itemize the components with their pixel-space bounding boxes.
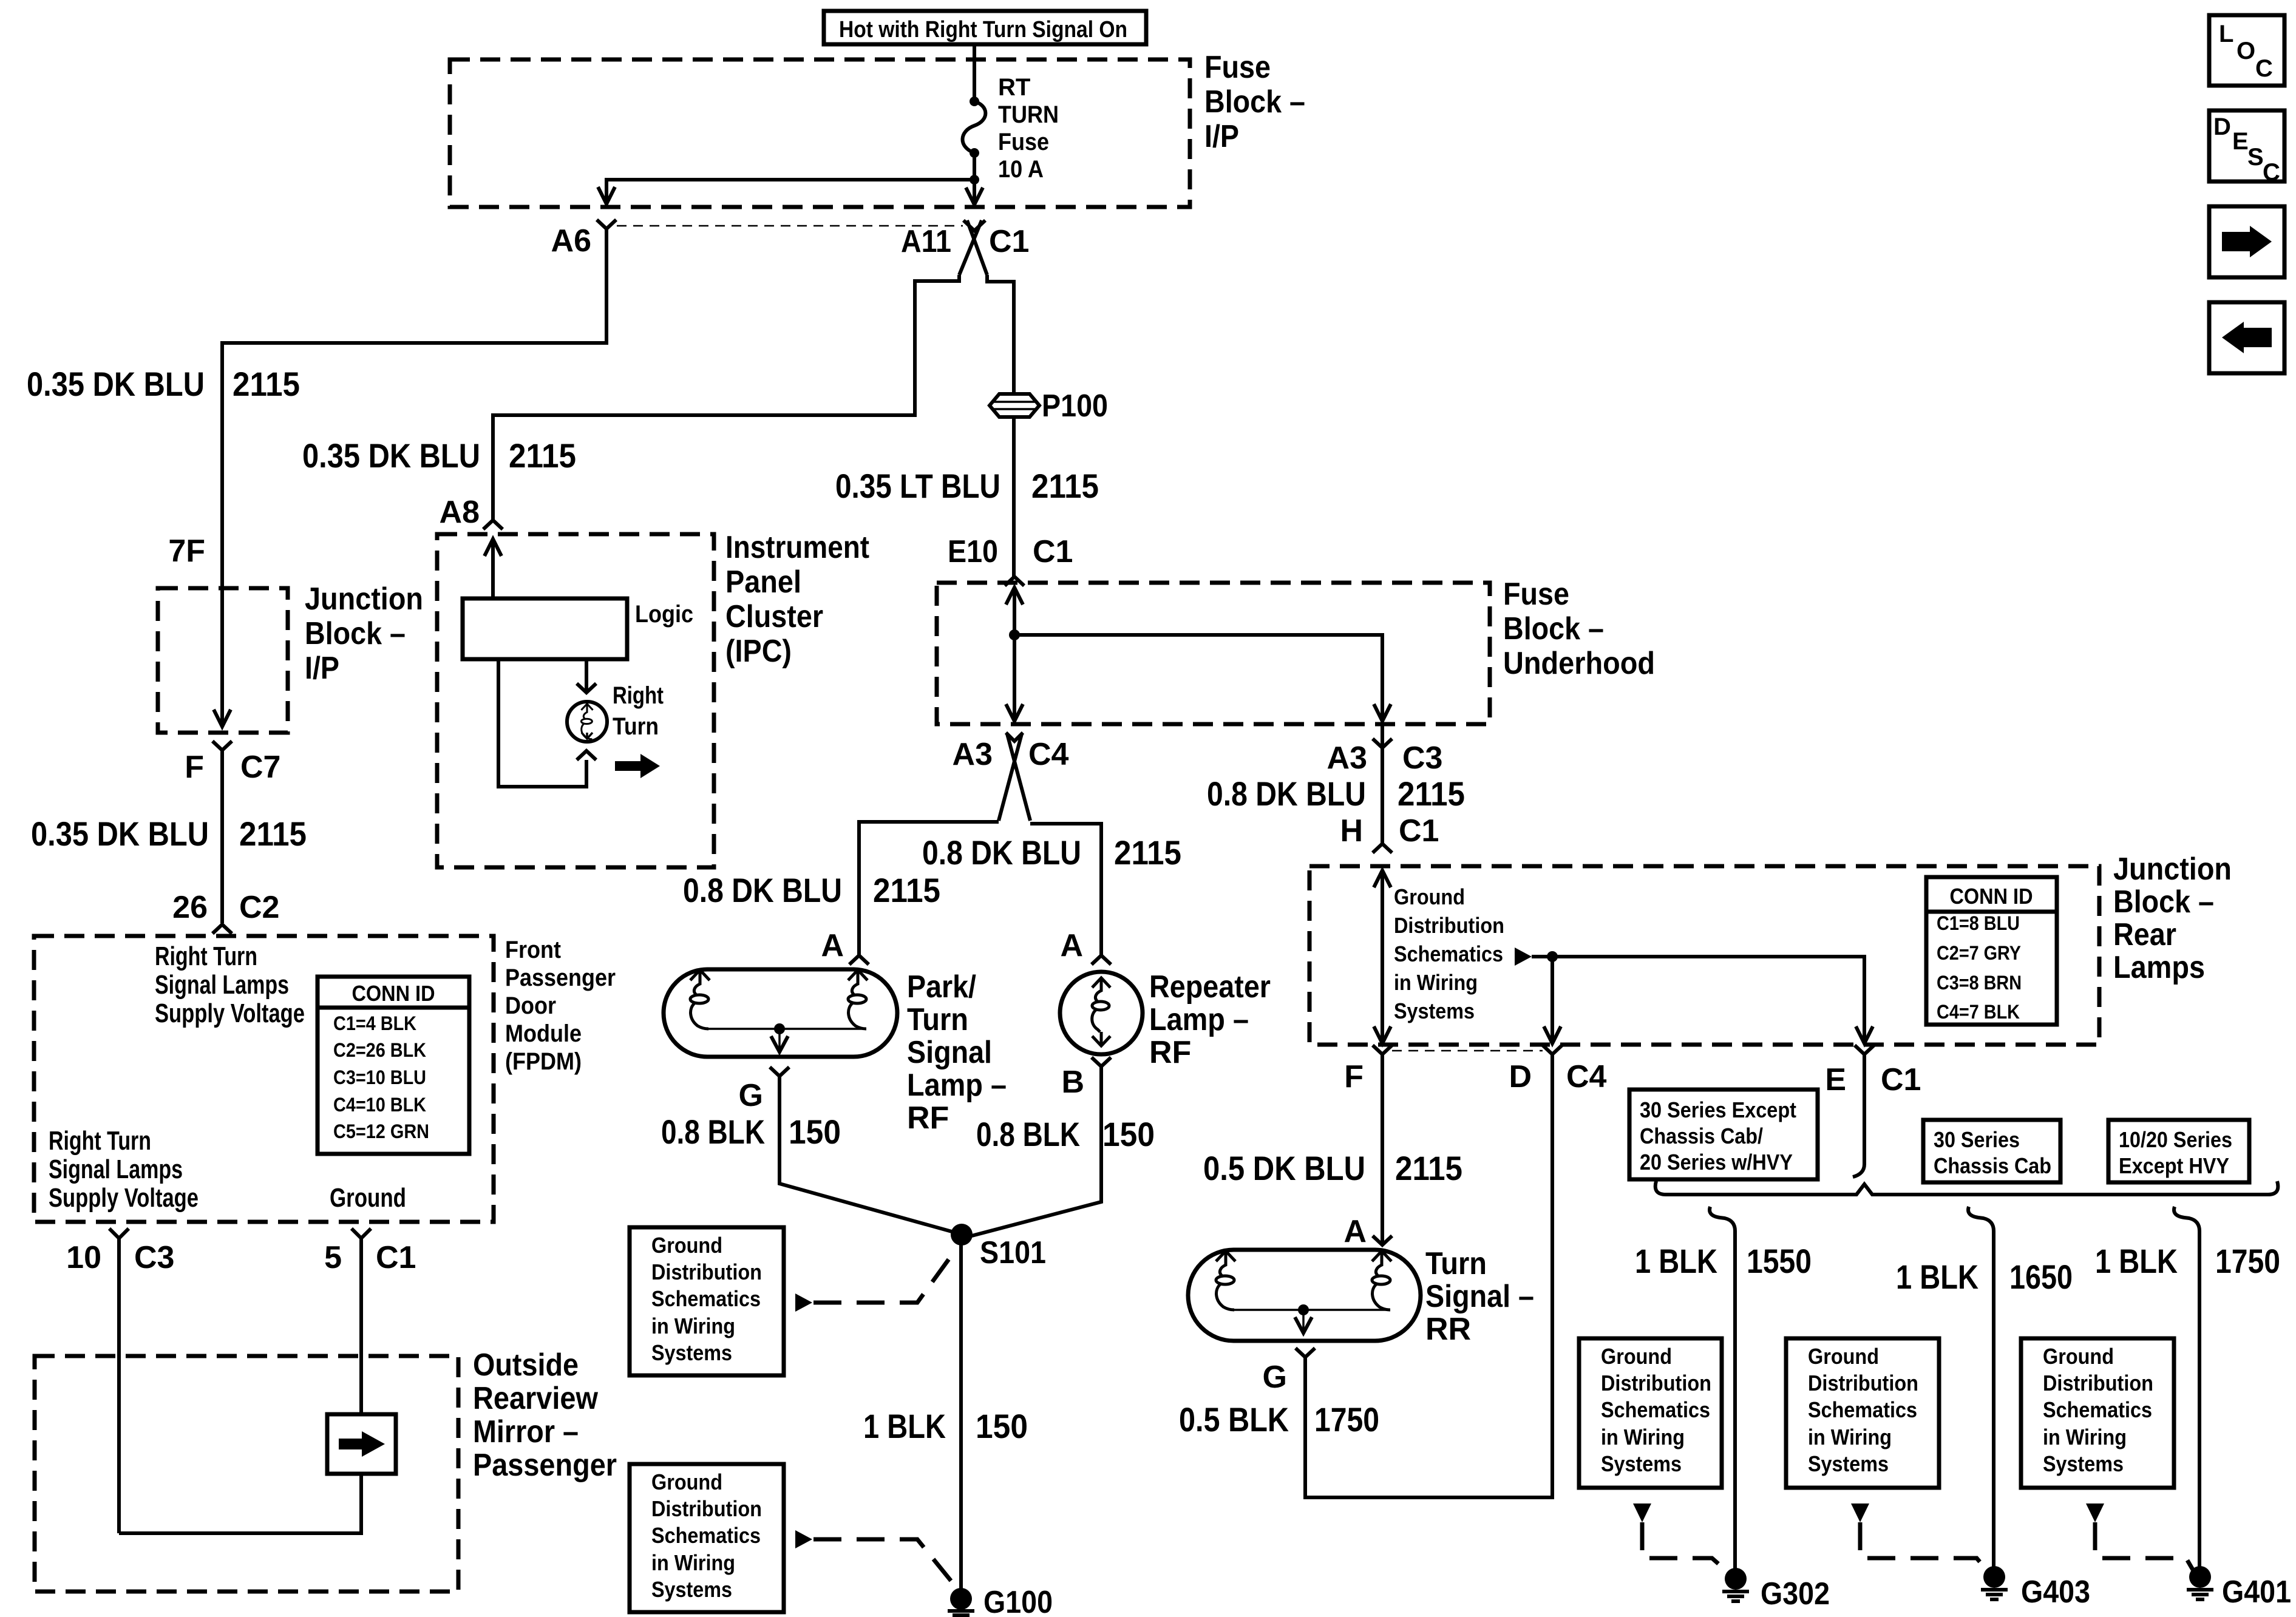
svg-text:G100: G100 — [983, 1585, 1053, 1617]
svg-text:C4=10 BLK: C4=10 BLK — [333, 1094, 426, 1116]
svg-text:1750: 1750 — [2215, 1242, 2280, 1280]
svg-text:C: C — [2255, 55, 2273, 82]
svg-text:Signal Lamps: Signal Lamps — [155, 970, 289, 1000]
svg-text:26: 26 — [172, 890, 208, 925]
svg-text:Junction: Junction — [305, 581, 423, 617]
svg-text:Outside: Outside — [473, 1347, 579, 1383]
svg-text:Ground: Ground — [651, 1470, 722, 1494]
svg-text:(FPDM): (FPDM) — [505, 1048, 582, 1075]
svg-text:C2: C2 — [239, 890, 279, 925]
svg-text:Front: Front — [505, 937, 561, 963]
svg-text:2115: 2115 — [509, 436, 576, 475]
svg-text:Systems: Systems — [1394, 998, 1475, 1023]
svg-text:Passenger: Passenger — [473, 1448, 617, 1483]
svg-text:F: F — [185, 750, 204, 785]
svg-text:Turn: Turn — [1425, 1246, 1487, 1281]
svg-text:Block –: Block – — [1503, 611, 1604, 646]
svg-text:0.8 BLK: 0.8 BLK — [661, 1113, 765, 1151]
svg-text:Systems: Systems — [1808, 1451, 1889, 1476]
svg-text:0.8 BLK: 0.8 BLK — [976, 1115, 1080, 1153]
svg-text:G403: G403 — [2021, 1575, 2090, 1610]
svg-text:Systems: Systems — [651, 1577, 732, 1602]
svg-text:C7: C7 — [240, 750, 280, 785]
svg-text:C1: C1 — [1033, 534, 1073, 569]
svg-text:O: O — [2237, 38, 2255, 64]
svg-text:G: G — [739, 1078, 763, 1113]
svg-text:E: E — [2232, 128, 2249, 155]
svg-text:Panel: Panel — [725, 564, 801, 600]
svg-text:Schematics: Schematics — [1601, 1397, 1710, 1422]
svg-text:Right Turn: Right Turn — [155, 941, 257, 971]
svg-text:2115: 2115 — [873, 871, 940, 909]
svg-text:0.35 LT BLU: 0.35 LT BLU — [835, 467, 1000, 505]
svg-text:Ground: Ground — [1808, 1344, 1879, 1369]
svg-text:A3: A3 — [1327, 741, 1367, 776]
svg-text:D: D — [1509, 1059, 1532, 1094]
svg-text:Passenger: Passenger — [505, 964, 616, 991]
svg-text:G: G — [1263, 1360, 1287, 1395]
svg-text:0.35 DK BLU: 0.35 DK BLU — [302, 436, 480, 475]
svg-text:Signal Lamps: Signal Lamps — [49, 1154, 183, 1184]
svg-text:Lamp –: Lamp – — [1149, 1002, 1249, 1037]
svg-text:I/P: I/P — [1204, 119, 1239, 154]
svg-text:C: C — [2263, 159, 2280, 186]
svg-text:1650: 1650 — [2009, 1258, 2073, 1296]
svg-text:(IPC): (IPC) — [725, 634, 792, 669]
svg-text:Block –: Block – — [2113, 884, 2214, 920]
svg-text:0.5 DK BLU: 0.5 DK BLU — [1203, 1149, 1365, 1187]
svg-text:Distribution: Distribution — [651, 1496, 762, 1521]
svg-text:Schematics: Schematics — [651, 1286, 761, 1311]
svg-text:A3: A3 — [953, 737, 993, 772]
svg-text:CONN ID: CONN ID — [1950, 884, 2033, 909]
svg-text:Supply Voltage: Supply Voltage — [49, 1183, 199, 1213]
svg-text:2115: 2115 — [239, 815, 307, 853]
svg-text:A: A — [1343, 1214, 1367, 1249]
svg-text:G302: G302 — [1761, 1576, 1830, 1612]
svg-text:1 BLK: 1 BLK — [2095, 1242, 2178, 1280]
svg-text:Chassis Cab: Chassis Cab — [1934, 1153, 2051, 1178]
svg-text:D: D — [2213, 114, 2231, 140]
svg-text:1 BLK: 1 BLK — [1635, 1242, 1717, 1280]
svg-text:Instrument: Instrument — [725, 530, 869, 565]
svg-text:C3=10 BLU: C3=10 BLU — [333, 1066, 426, 1088]
svg-text:Systems: Systems — [2043, 1451, 2124, 1476]
svg-text:S101: S101 — [980, 1235, 1046, 1270]
svg-text:Turn: Turn — [907, 1002, 968, 1037]
svg-text:Underhood: Underhood — [1503, 646, 1655, 681]
svg-text:Distribution: Distribution — [651, 1259, 762, 1284]
svg-text:L: L — [2219, 21, 2233, 47]
svg-text:Fuse: Fuse — [1204, 50, 1271, 85]
svg-text:Distribution: Distribution — [1394, 913, 1504, 938]
svg-text:C1: C1 — [1881, 1062, 1921, 1097]
svg-text:Right Turn: Right Turn — [49, 1126, 151, 1156]
svg-text:Right: Right — [613, 682, 664, 709]
svg-text:Distribution: Distribution — [1601, 1371, 1711, 1395]
svg-text:Turn: Turn — [613, 713, 659, 740]
svg-text:5: 5 — [324, 1240, 342, 1275]
svg-text:C1: C1 — [1399, 813, 1439, 849]
svg-text:in Wiring: in Wiring — [1601, 1425, 1685, 1449]
svg-text:in Wiring: in Wiring — [651, 1314, 735, 1338]
svg-text:Schematics: Schematics — [651, 1523, 761, 1548]
svg-text:S: S — [2247, 144, 2264, 171]
svg-text:Distribution: Distribution — [1808, 1371, 1918, 1395]
svg-text:E10: E10 — [948, 534, 998, 569]
svg-text:Chassis Cab/: Chassis Cab/ — [1640, 1124, 1763, 1148]
svg-text:20 Series w/HVY: 20 Series w/HVY — [1640, 1150, 1793, 1175]
svg-text:C2=7 GRY: C2=7 GRY — [1937, 942, 2021, 964]
svg-text:A: A — [1060, 928, 1083, 963]
svg-text:C5=12 GRN: C5=12 GRN — [333, 1120, 429, 1142]
svg-text:Ground: Ground — [651, 1233, 722, 1258]
svg-text:Supply Voltage: Supply Voltage — [155, 998, 305, 1028]
svg-text:E: E — [1825, 1062, 1846, 1097]
svg-text:Ground: Ground — [330, 1183, 406, 1213]
svg-text:Ground: Ground — [2043, 1344, 2114, 1369]
svg-text:Mirror –: Mirror – — [473, 1414, 579, 1449]
svg-text:RF: RF — [907, 1100, 949, 1136]
svg-text:F: F — [1344, 1059, 1364, 1094]
svg-text:C4: C4 — [1028, 737, 1069, 772]
svg-text:RT: RT — [998, 74, 1030, 101]
svg-text:Hot with Right Turn Signal On: Hot with Right Turn Signal On — [839, 17, 1127, 42]
svg-text:0.8 DK BLU: 0.8 DK BLU — [922, 833, 1081, 872]
svg-text:10 A: 10 A — [998, 156, 1044, 183]
svg-text:C2=26 BLK: C2=26 BLK — [333, 1039, 426, 1061]
svg-text:Logic: Logic — [635, 601, 693, 628]
svg-text:A8: A8 — [440, 495, 480, 530]
svg-text:Signal: Signal — [907, 1035, 992, 1070]
svg-text:Systems: Systems — [1601, 1451, 1682, 1476]
svg-text:150: 150 — [789, 1113, 841, 1151]
svg-text:Schematics: Schematics — [1808, 1397, 1917, 1422]
svg-text:Ground: Ground — [1394, 884, 1465, 909]
svg-text:10/20 Series: 10/20 Series — [2119, 1127, 2232, 1152]
svg-text:A11: A11 — [901, 224, 951, 259]
svg-text:in Wiring: in Wiring — [651, 1550, 735, 1575]
svg-text:in Wiring: in Wiring — [2043, 1425, 2127, 1449]
svg-text:C1: C1 — [376, 1240, 416, 1275]
svg-text:Rearview: Rearview — [473, 1381, 598, 1416]
svg-text:0.5 BLK: 0.5 BLK — [1179, 1400, 1289, 1439]
svg-text:2115: 2115 — [1114, 833, 1181, 872]
svg-text:H: H — [1340, 813, 1363, 849]
svg-text:C1: C1 — [989, 224, 1029, 259]
svg-text:CONN ID: CONN ID — [352, 981, 435, 1006]
svg-text:B: B — [1061, 1065, 1084, 1100]
svg-text:Fuse: Fuse — [1503, 577, 1569, 612]
svg-text:in Wiring: in Wiring — [1394, 970, 1478, 995]
svg-text:TURN: TURN — [998, 101, 1059, 128]
svg-text:Signal –: Signal – — [1425, 1279, 1534, 1314]
svg-text:2115: 2115 — [1031, 467, 1099, 505]
svg-text:Lamps: Lamps — [2113, 950, 2205, 985]
svg-text:30 Series Except: 30 Series Except — [1640, 1097, 1796, 1122]
svg-text:2115: 2115 — [1398, 775, 1465, 813]
svg-text:0.8 DK BLU: 0.8 DK BLU — [683, 871, 842, 909]
svg-text:C4=7 BLK: C4=7 BLK — [1937, 1001, 2020, 1023]
svg-text:Repeater: Repeater — [1149, 969, 1271, 1005]
svg-text:150: 150 — [976, 1407, 1028, 1445]
svg-text:C3: C3 — [1402, 741, 1442, 776]
svg-text:Schematics: Schematics — [1394, 941, 1503, 966]
svg-text:C4: C4 — [1566, 1059, 1607, 1094]
svg-text:Fuse: Fuse — [998, 129, 1049, 155]
svg-text:C1=4 BLK: C1=4 BLK — [333, 1012, 416, 1034]
svg-text:0.35 DK BLU: 0.35 DK BLU — [27, 365, 205, 403]
svg-text:in Wiring: in Wiring — [1808, 1425, 1892, 1449]
svg-text:30 Series: 30 Series — [1934, 1127, 2020, 1152]
svg-text:Park/: Park/ — [907, 969, 976, 1005]
svg-text:I/P: I/P — [305, 651, 339, 686]
svg-text:C3=8 BRN: C3=8 BRN — [1937, 972, 2022, 994]
svg-text:Distribution: Distribution — [2043, 1371, 2153, 1395]
svg-text:Systems: Systems — [651, 1340, 732, 1365]
svg-text:Junction: Junction — [2113, 852, 2232, 887]
svg-text:Door: Door — [505, 992, 556, 1019]
svg-text:Block –: Block – — [1204, 84, 1305, 120]
svg-text:10: 10 — [66, 1240, 101, 1275]
svg-text:1550: 1550 — [1747, 1242, 1812, 1280]
svg-text:A6: A6 — [551, 223, 591, 259]
svg-text:Block –: Block – — [305, 616, 406, 651]
svg-text:1 BLK: 1 BLK — [1896, 1258, 1978, 1296]
svg-text:C3: C3 — [134, 1240, 174, 1275]
svg-text:1750: 1750 — [1314, 1400, 1379, 1439]
svg-text:Cluster: Cluster — [725, 599, 823, 634]
svg-text:C1=8 BLU: C1=8 BLU — [1937, 912, 2020, 934]
svg-text:Lamp –: Lamp – — [907, 1068, 1007, 1103]
svg-text:G401: G401 — [2222, 1575, 2291, 1610]
svg-text:RF: RF — [1149, 1035, 1191, 1070]
svg-text:2115: 2115 — [233, 365, 300, 403]
svg-text:1 BLK: 1 BLK — [863, 1407, 946, 1445]
svg-text:150: 150 — [1102, 1115, 1155, 1153]
svg-text:Schematics: Schematics — [2043, 1397, 2152, 1422]
svg-text:A: A — [821, 928, 844, 963]
svg-text:7F: 7F — [168, 534, 205, 569]
svg-text:Except HVY: Except HVY — [2119, 1153, 2229, 1178]
svg-text:0.35 DK BLU: 0.35 DK BLU — [31, 815, 209, 853]
svg-text:Ground: Ground — [1601, 1344, 1672, 1369]
svg-text:P100: P100 — [1042, 388, 1108, 424]
svg-text:0.8 DK BLU: 0.8 DK BLU — [1207, 775, 1366, 813]
svg-text:Rear: Rear — [2113, 917, 2176, 952]
svg-text:RR: RR — [1425, 1312, 1471, 1347]
svg-text:2115: 2115 — [1395, 1149, 1462, 1187]
svg-text:Module: Module — [505, 1020, 582, 1047]
